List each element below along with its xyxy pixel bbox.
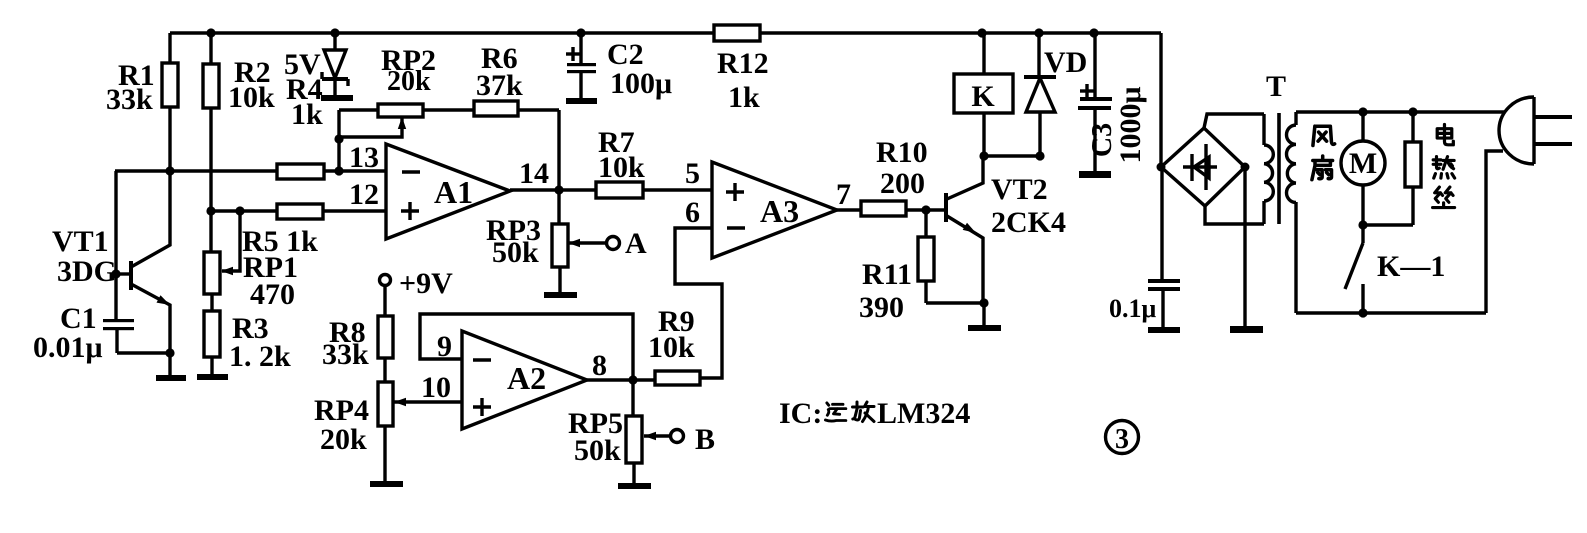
- svg-text:470: 470: [250, 278, 295, 311]
- svg-text:8: 8: [592, 349, 607, 382]
- svg-text:A: A: [625, 227, 647, 260]
- svg-text:IC:: IC:: [779, 397, 822, 430]
- svg-text:VT2: VT2: [991, 173, 1048, 206]
- svg-text:1k: 1k: [728, 81, 760, 114]
- svg-text:K—1: K—1: [1377, 250, 1445, 283]
- svg-text:7: 7: [836, 178, 851, 211]
- svg-text:10k: 10k: [598, 151, 645, 184]
- svg-text:50k: 50k: [574, 434, 621, 467]
- svg-text:13: 13: [349, 141, 379, 174]
- svg-text:390: 390: [859, 291, 904, 324]
- svg-text:1. 2k: 1. 2k: [229, 340, 291, 373]
- svg-text:A2: A2: [507, 360, 546, 396]
- svg-text:M: M: [1349, 147, 1377, 180]
- svg-text:20k: 20k: [387, 66, 431, 97]
- svg-text:14: 14: [519, 157, 549, 190]
- svg-text:R12: R12: [717, 47, 769, 80]
- svg-text:K: K: [971, 80, 995, 113]
- svg-text:10k: 10k: [228, 81, 275, 114]
- svg-text:10k: 10k: [648, 331, 695, 364]
- svg-text:10: 10: [421, 371, 451, 404]
- svg-text:LM324: LM324: [877, 397, 970, 430]
- svg-text:12: 12: [349, 178, 379, 211]
- svg-text:T: T: [1266, 70, 1286, 103]
- svg-text:3DG: 3DG: [57, 255, 117, 288]
- svg-text:50k: 50k: [492, 236, 539, 269]
- svg-text:1000μ: 1000μ: [1114, 86, 1147, 163]
- svg-text:20k: 20k: [320, 423, 367, 456]
- svg-text:A3: A3: [760, 193, 799, 229]
- svg-text:VT1: VT1: [52, 225, 109, 258]
- svg-text:R10: R10: [876, 136, 928, 169]
- svg-text:0.01μ: 0.01μ: [33, 331, 103, 364]
- svg-text:200: 200: [880, 167, 925, 200]
- svg-text:9: 9: [437, 330, 452, 363]
- svg-text:B: B: [695, 423, 715, 456]
- svg-text:33k: 33k: [106, 83, 153, 116]
- svg-text:5: 5: [685, 157, 700, 190]
- svg-text:2CK4: 2CK4: [991, 206, 1066, 239]
- svg-text:R11: R11: [862, 258, 912, 291]
- svg-text:0.1μ: 0.1μ: [1109, 294, 1157, 323]
- svg-text:1k: 1k: [291, 98, 323, 131]
- svg-text:33k: 33k: [322, 338, 369, 371]
- svg-text:+9V: +9V: [399, 267, 453, 300]
- svg-text:6: 6: [685, 196, 700, 229]
- svg-text:37k: 37k: [476, 69, 523, 102]
- svg-text:A1: A1: [434, 174, 473, 210]
- svg-text:VD: VD: [1044, 46, 1087, 79]
- svg-text:3: 3: [1115, 424, 1129, 455]
- svg-text:100μ: 100μ: [610, 67, 672, 100]
